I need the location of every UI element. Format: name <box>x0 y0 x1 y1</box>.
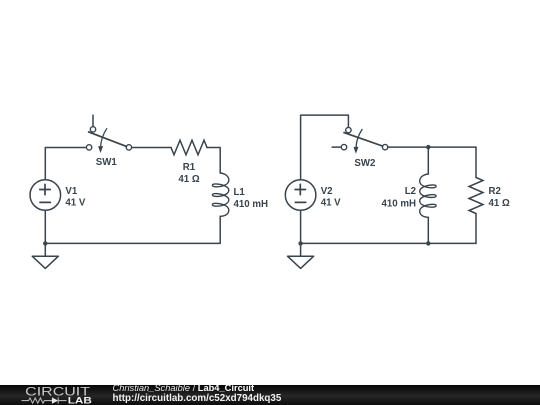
svg-text:410 mH: 410 mH <box>234 199 268 210</box>
wire R1 to L1 <box>207 148 220 174</box>
svg-text:http://circuitlab.com/c52xd794: http://circuitlab.com/c52xd794dkq35 <box>113 393 282 404</box>
logo wire with resistor <box>22 398 52 403</box>
footer bar <box>0 385 540 405</box>
voltage source V1 <box>30 180 61 211</box>
wire SW1 to R1 <box>132 147 171 149</box>
switch SW2 <box>332 127 388 153</box>
label L2 value 410 mH <box>382 186 416 210</box>
svg-text:R2: R2 <box>489 186 501 197</box>
svg-text:41 Ω: 41 Ω <box>178 174 199 185</box>
svg-text:410 mH: 410 mH <box>382 198 416 209</box>
switch SW1 <box>86 115 131 153</box>
logo diode <box>52 397 67 403</box>
wire V1 bottom to ground <box>44 210 46 256</box>
voltage source V2 <box>285 180 316 211</box>
ground right <box>288 256 314 268</box>
resistor R2 leads <box>475 147 477 243</box>
label R1 value 41 ohm <box>178 162 199 185</box>
resistor R1 <box>171 140 207 155</box>
wire V1 top to switch <box>45 148 86 180</box>
svg-text:SW1: SW1 <box>96 157 118 168</box>
wire V2 bottom to ground <box>300 210 302 256</box>
svg-text:L1: L1 <box>234 187 246 198</box>
svg-text:R1: R1 <box>183 162 196 173</box>
label R2 value 41 ohm <box>489 186 510 209</box>
node junction V2 bottom <box>298 241 302 245</box>
svg-text:V2: V2 <box>321 186 333 197</box>
inductor L1 <box>212 173 228 216</box>
node junction L2 top <box>426 145 430 149</box>
wire V2 top to switch SW2 <box>301 115 349 180</box>
node junction V1 bottom <box>43 241 47 245</box>
svg-text:LAB: LAB <box>68 396 92 405</box>
svg-text:Christian_Schaible / Lab4_Circ: Christian_Schaible / Lab4_Circuit <box>113 383 255 393</box>
label V2 value 41 V <box>321 186 341 209</box>
node junction L2 bottom <box>426 241 430 245</box>
wire L2 top lead <box>427 147 429 174</box>
svg-text:L2: L2 <box>405 186 416 197</box>
svg-text:V1: V1 <box>65 186 77 197</box>
svg-text:SW2: SW2 <box>354 158 375 169</box>
wire SW2 to L2 node <box>388 146 476 148</box>
ground left <box>32 256 58 268</box>
label V1 value 41 V <box>65 186 85 209</box>
label L1 value 410 mH <box>234 187 268 210</box>
inductor L2 <box>420 174 436 217</box>
resistor R2 <box>469 178 483 214</box>
svg-text:41 Ω: 41 Ω <box>489 198 510 209</box>
wire L1 to bottom rail <box>45 216 220 243</box>
svg-text:41 V: 41 V <box>65 198 85 209</box>
svg-text:41 V: 41 V <box>321 198 341 209</box>
wire bottom rail right circuit <box>301 242 476 244</box>
wire L2 bottom lead <box>427 217 429 243</box>
